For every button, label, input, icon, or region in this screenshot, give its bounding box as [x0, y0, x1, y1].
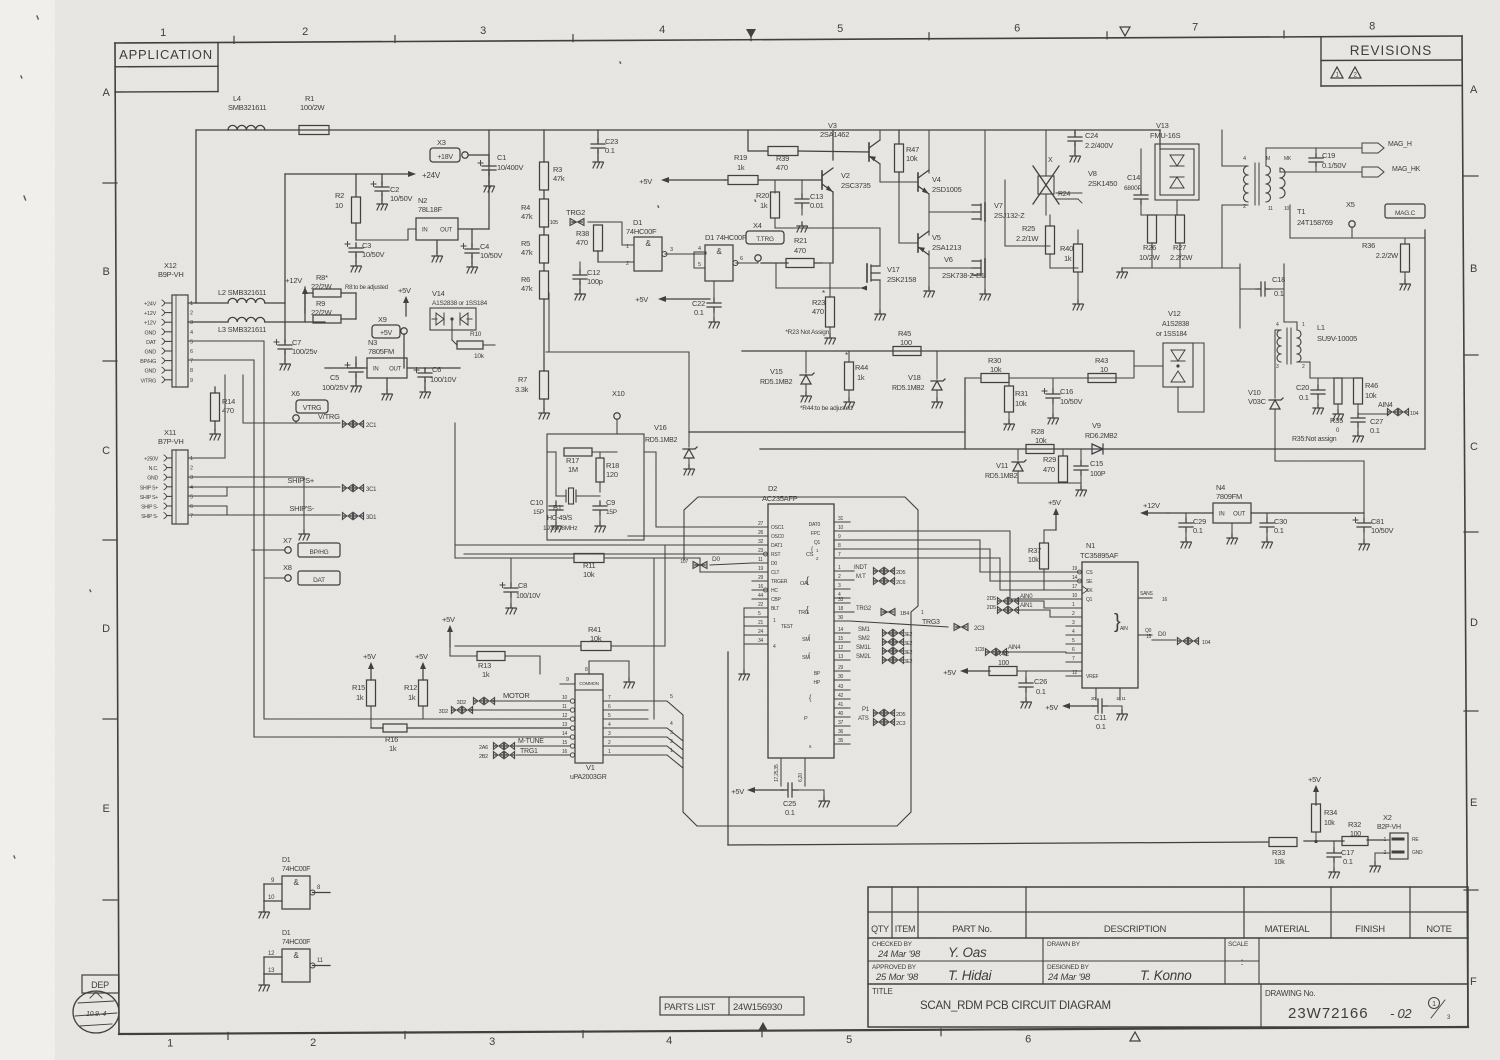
- svg-text:SM1L: SM1L: [856, 645, 872, 651]
- svg-text:R42: R42: [996, 649, 1009, 658]
- resistor R39: [748, 130, 869, 172]
- connector X12 B9P-VH: [140, 261, 193, 387]
- bottom centre fold marker: [758, 1022, 768, 1031]
- svg-text:A: A: [102, 87, 110, 99]
- svg-text:V/TRG: V/TRG: [140, 378, 156, 384]
- signal MAG_HK: [1280, 166, 1421, 177]
- svg-text:SCAN_RDM PCB CIRCUIT DIAGRAM: SCAN_RDM PCB CIRCUIT DIAGRAM: [920, 1000, 1111, 1012]
- svg-text:2C1: 2C1: [366, 423, 377, 429]
- svg-text:DESIGNED BY: DESIGNED BY: [1047, 964, 1090, 971]
- grid reference numbers top: [160, 20, 1375, 43]
- wire output node: [1005, 180, 1078, 268]
- svg-text:0.1: 0.1: [1370, 426, 1380, 435]
- svg-text:9: 9: [190, 378, 193, 384]
- svg-text:3D2: 3D2: [457, 700, 467, 706]
- handwritten approved by signature: [875, 968, 993, 983]
- svg-text:10/50V: 10/50V: [362, 250, 385, 259]
- zener V15: [760, 351, 814, 402]
- handwritten checked by signature: [877, 945, 987, 960]
- connector X8 DAT: [264, 563, 340, 585]
- svg-text:BP/HG: BP/HG: [140, 359, 156, 365]
- svg-text:47k: 47k: [553, 174, 565, 183]
- resistor R32: [1342, 820, 1368, 846]
- capacitor C29: [1179, 513, 1206, 548]
- transistor V5 2SA1213: [899, 212, 961, 297]
- capacitor C8: [500, 558, 541, 614]
- svg-text:C: C: [102, 445, 110, 457]
- wire box power upper: [546, 352, 689, 432]
- svg-text:100/2W: 100/2W: [300, 103, 326, 112]
- crystal B1: [543, 452, 600, 532]
- svg-text:D1: D1: [633, 218, 642, 227]
- resistor R34: [1308, 775, 1337, 843]
- svg-text:TRG3: TRG3: [922, 619, 940, 626]
- capacitor C26: [1019, 671, 1047, 708]
- svg-text:20: 20: [1091, 696, 1096, 701]
- svg-text:10k: 10k: [1365, 391, 1377, 400]
- svg-text:3E2: 3E2: [904, 632, 913, 638]
- signal V/TRG: [293, 412, 377, 429]
- svg-text:RD5.1MB2: RD5.1MB2: [760, 379, 793, 386]
- zener V11: [985, 449, 1026, 483]
- wire R45 rail: [742, 350, 1134, 352]
- wire L1 box: [1240, 264, 1284, 328]
- label R35 not assign: [1292, 436, 1337, 443]
- capacitor C11: [1045, 688, 1127, 731]
- svg-text:V12: V12: [1168, 309, 1181, 318]
- svg-text:2SJ132-Z: 2SJ132-Z: [994, 211, 1025, 220]
- svg-text:TRGER: TRGER: [771, 579, 788, 585]
- svg-text:2: 2: [626, 261, 629, 267]
- DEP department box: [82, 975, 119, 993]
- svg-text:GND: GND: [1412, 850, 1423, 856]
- svg-text:10k: 10k: [1015, 399, 1027, 408]
- svg-text:R9: R9: [316, 299, 325, 308]
- svg-text:R37: R37: [1028, 546, 1041, 555]
- regulator N3 7805FM: [325, 338, 460, 400]
- svg-text:R3: R3: [553, 165, 562, 174]
- resistor R5: [521, 227, 549, 263]
- svg-text:1k: 1k: [857, 373, 865, 382]
- svg-text:8: 8: [190, 368, 193, 374]
- capacitor C15: [1074, 449, 1106, 483]
- svg-text:104: 104: [1202, 640, 1211, 646]
- resistor R43: [1088, 356, 1116, 383]
- svg-text:16: 16: [758, 584, 764, 590]
- svg-text:C2: C2: [390, 185, 399, 194]
- svg-text:VREF: VREF: [1086, 674, 1099, 680]
- wire X2 route: [728, 652, 1383, 845]
- svg-text:MATERIAL: MATERIAL: [1265, 924, 1310, 935]
- svg-text:DAT: DAT: [146, 340, 157, 346]
- svg-text:+5V: +5V: [1045, 703, 1058, 712]
- svg-text:AIN4: AIN4: [1378, 402, 1393, 409]
- svg-text:MAG.C: MAG.C: [1395, 210, 1416, 217]
- svg-text:11: 11: [758, 557, 763, 563]
- svg-text:11: 11: [562, 704, 567, 710]
- svg-text:IN: IN: [1219, 512, 1225, 518]
- svg-text:R8*: R8*: [316, 273, 328, 282]
- svg-text:10k: 10k: [990, 365, 1002, 374]
- svg-text:TITLE: TITLE: [872, 987, 893, 996]
- svg-text:10: 10: [1100, 365, 1108, 374]
- svg-text:COMMON: COMMON: [579, 681, 599, 686]
- wire TRG3 run: [850, 621, 948, 627]
- svg-text:L4: L4: [233, 94, 241, 103]
- svg-text:V4: V4: [932, 175, 941, 184]
- connector X6 VTRG: [291, 389, 328, 413]
- svg-text:0.1: 0.1: [605, 146, 615, 155]
- capacitor C13: [795, 180, 824, 232]
- resistor R26: [1139, 215, 1161, 268]
- svg-text:10k: 10k: [1028, 557, 1039, 564]
- svg-text:104: 104: [1410, 411, 1419, 417]
- svg-text:1: 1: [190, 456, 193, 462]
- svg-text:+18V: +18V: [437, 154, 453, 161]
- svg-text:+5V: +5V: [442, 615, 455, 624]
- connector X11 B7P-VH: [140, 428, 193, 524]
- svg-text:SM2: SM2: [858, 636, 871, 642]
- svg-text:6: 6: [740, 256, 743, 262]
- capacitor C5: [322, 357, 363, 392]
- svg-text:OUT: OUT: [389, 367, 402, 373]
- svg-text:V9: V9: [1092, 421, 1101, 430]
- svg-text:C11: C11: [1094, 713, 1107, 722]
- svg-text:N1: N1: [1086, 541, 1095, 550]
- signal P1: [862, 707, 906, 718]
- resistor R9: [311, 293, 356, 323]
- svg-text:2.2/2W: 2.2/2W: [1170, 253, 1193, 262]
- resistor R7: [515, 299, 550, 419]
- svg-text:T. Hidai: T. Hidai: [948, 968, 993, 983]
- svg-text:VTRG: VTRG: [303, 405, 321, 412]
- wire box power vert: [741, 351, 743, 432]
- svg-text:GND: GND: [145, 330, 157, 336]
- svg-text:3D2: 3D2: [439, 709, 449, 715]
- svg-text:6: 6: [1014, 22, 1020, 34]
- svg-text:V11: V11: [996, 461, 1008, 470]
- svg-text:27: 27: [758, 521, 764, 527]
- resistor R42: [943, 649, 1082, 677]
- svg-text:0.1: 0.1: [1193, 526, 1203, 535]
- svg-text:DAT0: DAT0: [809, 522, 821, 528]
- power +12V arrow: [1140, 501, 1168, 516]
- svg-text:41: 41: [838, 702, 844, 708]
- svg-text:- 02: - 02: [1390, 1006, 1412, 1021]
- svg-text:SANS: SANS: [1140, 591, 1154, 597]
- svg-text:R43: R43: [1095, 356, 1108, 365]
- svg-text:11: 11: [1268, 206, 1273, 212]
- svg-text:L3 SMB321611: L3 SMB321611: [218, 325, 266, 334]
- svg-text:R8:to be adjusted: R8:to be adjusted: [345, 285, 388, 291]
- svg-text:24T158769: 24T158769: [1297, 218, 1333, 227]
- capacitor C19: [1309, 148, 1346, 172]
- svg-text:INDT: INDT: [854, 565, 868, 571]
- transistor V2 2SC3735: [822, 130, 871, 263]
- svg-text:3E2: 3E2: [904, 659, 913, 665]
- svg-text:C27: C27: [1370, 417, 1383, 426]
- capacitor C14: [1124, 149, 1148, 215]
- gate D1b 74HC00F: [694, 233, 758, 281]
- svg-text:74HC00F: 74HC00F: [282, 866, 310, 873]
- resistor R38: [576, 225, 603, 262]
- grid reference letters right: [1464, 84, 1478, 988]
- diode V9: [1085, 421, 1118, 454]
- svg-text:24: 24: [758, 629, 764, 635]
- svg-text:RE: RE: [1412, 837, 1419, 843]
- wire X12 VTRG run: [243, 375, 340, 423]
- svg-text:*R23 Not Assign: *R23 Not Assign: [785, 329, 829, 336]
- svg-text:B1: B1: [553, 503, 562, 512]
- svg-text:V18: V18: [908, 373, 921, 382]
- wire left drop from rail: [195, 130, 197, 303]
- capacitor C10: [530, 498, 563, 532]
- svg-text:15P: 15P: [533, 509, 544, 516]
- svg-text:2D5: 2D5: [987, 605, 997, 611]
- svg-text:10/50V: 10/50V: [480, 251, 503, 260]
- IC D2 bottom pins: [774, 758, 805, 786]
- svg-text:6800P: 6800P: [1124, 185, 1142, 192]
- svg-text:14: 14: [838, 627, 844, 633]
- svg-text:V17: V17: [887, 265, 900, 274]
- svg-text:V14: V14: [432, 289, 445, 298]
- svg-text:A1S2838: A1S2838: [1162, 321, 1189, 328]
- svg-text:}: }: [1114, 611, 1121, 633]
- connector X2 B2P-VH: [1370, 813, 1423, 872]
- svg-text:1: 1: [167, 1038, 173, 1050]
- svg-text:10: 10: [1284, 206, 1290, 212]
- svg-text:R13: R13: [478, 661, 491, 670]
- svg-text:CLT: CLT: [771, 570, 780, 576]
- svg-text:3E2: 3E2: [904, 641, 913, 647]
- svg-text:D: D: [102, 623, 110, 635]
- svg-text:X8: X8: [283, 563, 292, 572]
- svg-text:+5V: +5V: [1308, 775, 1321, 784]
- connector X10: [612, 389, 625, 434]
- svg-text:X12: X12: [164, 261, 177, 270]
- svg-text:29: 29: [838, 665, 844, 671]
- svg-text:3.3k: 3.3k: [515, 385, 529, 394]
- svg-text:*R44:to be adjusted: *R44:to be adjusted: [800, 405, 853, 412]
- svg-text:R16: R16: [385, 735, 398, 744]
- wire left verticals: [454, 423, 456, 558]
- resistor R33: [1269, 838, 1297, 867]
- svg-text:R34: R34: [1324, 808, 1337, 817]
- resistor R15: [352, 652, 376, 728]
- svg-text:DESCRIPTION: DESCRIPTION: [1104, 924, 1167, 935]
- resistor R29: [1043, 449, 1068, 483]
- resistor R40: [1060, 230, 1084, 310]
- svg-text:C6: C6: [432, 365, 441, 374]
- signal SAAS out: [1152, 597, 1168, 603]
- inductor L4: [228, 94, 267, 130]
- svg-text:MOTOR: MOTOR: [503, 691, 530, 700]
- svg-text:C7: C7: [292, 338, 301, 347]
- svg-text:10: 10: [838, 525, 844, 531]
- svg-text:FINISH: FINISH: [1355, 924, 1385, 935]
- svg-text:+5V: +5V: [639, 177, 652, 186]
- svg-text:R44: R44: [855, 363, 868, 372]
- signal 3D2 pin11: [439, 707, 560, 716]
- svg-text:10/2W: 10/2W: [1139, 253, 1161, 262]
- svg-text:R35:Not assign: R35:Not assign: [1292, 436, 1337, 443]
- svg-text:1k: 1k: [389, 744, 397, 753]
- svg-text:40: 40: [838, 711, 844, 717]
- svg-text:+12V: +12V: [144, 321, 157, 327]
- svg-text:C8: C8: [518, 581, 527, 590]
- diode pair V14: [430, 289, 488, 330]
- svg-text:F: F: [1470, 976, 1477, 988]
- capacitor C23: [591, 130, 618, 168]
- svg-text:2C3: 2C3: [974, 626, 985, 632]
- svg-text:31: 31: [838, 516, 844, 522]
- resistor R8: [305, 273, 388, 322]
- diode pair V12: [1134, 309, 1204, 412]
- signal M.T: [850, 574, 906, 586]
- svg-text:T. Konno: T. Konno: [1140, 968, 1192, 983]
- svg-text:15: 15: [838, 636, 844, 642]
- wire X11 pin jogs: [188, 487, 227, 515]
- svg-text:5: 5: [190, 339, 193, 345]
- svg-text:6: 6: [190, 504, 193, 510]
- svg-text:6: 6: [190, 349, 193, 355]
- svg-text:OUT: OUT: [440, 228, 453, 234]
- svg-text:C24: C24: [1085, 131, 1098, 140]
- svg-text:M.T: M.T: [856, 574, 866, 580]
- spare gate D1 74HC00F upper: [259, 857, 330, 918]
- svg-text:+5V: +5V: [731, 787, 744, 796]
- svg-text:{: {: [811, 547, 813, 553]
- svg-text:TRG1: TRG1: [520, 748, 538, 755]
- svg-text:DEP: DEP: [91, 980, 109, 990]
- svg-text:Q1: Q1: [1086, 597, 1093, 603]
- svg-text:C: C: [1470, 441, 1478, 453]
- signal AIN0: [987, 594, 1066, 608]
- svg-text:470: 470: [576, 238, 588, 247]
- wire main rail 449: [760, 230, 1425, 449]
- connector X5: [1346, 200, 1355, 238]
- svg-text:10k: 10k: [590, 634, 602, 643]
- svg-text:R47: R47: [906, 145, 919, 154]
- svg-text:470: 470: [1043, 465, 1055, 474]
- tag MAG.C: [1385, 204, 1425, 218]
- svg-text:4: 4: [190, 330, 193, 336]
- svg-text:SM2L: SM2L: [856, 654, 872, 660]
- svg-text:T.TRG: T.TRG: [756, 236, 774, 243]
- svg-text:V2: V2: [841, 171, 850, 180]
- svg-text:1: 1: [190, 301, 193, 307]
- svg-text:C12: C12: [587, 268, 600, 277]
- svg-text:+5V: +5V: [635, 295, 648, 304]
- svg-text:*: *: [845, 351, 848, 360]
- svg-text:1k: 1k: [1064, 254, 1072, 263]
- resistor R41: [455, 545, 665, 651]
- wire R16 run: [371, 727, 570, 729]
- inductor L2: [188, 288, 285, 303]
- svg-text:X2: X2: [1383, 813, 1392, 822]
- svg-text:10.9.-4: 10.9.-4: [86, 1011, 106, 1018]
- svg-text:12: 12: [838, 645, 844, 651]
- capacitor C24: [1068, 130, 1113, 162]
- svg-text:R30: R30: [988, 356, 1001, 365]
- svg-text:470: 470: [776, 163, 788, 172]
- wire V10 to N4: [1275, 449, 1364, 513]
- svg-text:R15: R15: [352, 683, 365, 692]
- svg-text:7805FM: 7805FM: [368, 347, 394, 356]
- svg-text:2D5: 2D5: [987, 596, 997, 602]
- capacitor C20: [1296, 378, 1325, 414]
- svg-text:C5: C5: [330, 373, 339, 382]
- svg-text:R14: R14: [222, 397, 235, 406]
- svg-text:ITEM: ITEM: [895, 924, 916, 934]
- svg-text:3D1: 3D1: [366, 515, 377, 521]
- wire D2 outline box: [684, 497, 918, 826]
- svg-text:C13: C13: [810, 192, 823, 201]
- svg-text:R31: R31: [1015, 389, 1028, 398]
- svg-text:D2: D2: [768, 484, 777, 493]
- signal TRG3: [922, 619, 985, 632]
- svg-text:RD5.1MB2: RD5.1MB2: [645, 437, 678, 444]
- resistor R14: [210, 387, 235, 440]
- svg-text:X3: X3: [437, 138, 446, 147]
- signal SM2: [858, 636, 913, 647]
- top centre fold marker: [746, 29, 756, 38]
- svg-text:100/10V: 100/10V: [516, 593, 541, 600]
- svg-text:1k: 1k: [482, 670, 490, 679]
- svg-text:R41: R41: [588, 625, 601, 634]
- svg-text:35: 35: [838, 738, 844, 744]
- svg-text:10k: 10k: [583, 570, 595, 579]
- svg-text:D1: D1: [282, 930, 291, 937]
- svg-text:N4: N4: [1216, 483, 1225, 492]
- svg-text:2SD1005: 2SD1005: [932, 185, 962, 194]
- svg-text:17: 17: [1072, 584, 1078, 590]
- wire T1 primary: [1222, 130, 1248, 268]
- svg-text:BP: BP: [814, 671, 821, 677]
- svg-text:22/2W: 22/2W: [311, 308, 333, 317]
- svg-text:C17: C17: [1341, 848, 1354, 857]
- svg-text:R24: R24: [1058, 191, 1070, 198]
- wire digital box outer: [254, 430, 570, 737]
- svg-text:2B2: 2B2: [479, 754, 488, 760]
- svg-text:R36: R36: [1362, 241, 1375, 250]
- APPLICATION title box: [115, 43, 218, 93]
- resistor R45: [893, 329, 921, 356]
- svg-text:CBP: CBP: [771, 597, 781, 603]
- svg-text:GND: GND: [145, 369, 157, 375]
- svg-text:33: 33: [838, 597, 844, 603]
- svg-text:2: 2: [310, 1037, 316, 1049]
- svg-text:74HC00F: 74HC00F: [626, 227, 657, 236]
- svg-text:B9P-VH: B9P-VH: [158, 270, 184, 279]
- signal ATS: [858, 716, 906, 727]
- resistor R27: [1170, 215, 1193, 268]
- svg-text:470: 470: [812, 307, 824, 316]
- transistor V3 2SA1462: [820, 121, 899, 182]
- capacitor C3: [345, 241, 385, 272]
- connector X3 +18V: [430, 130, 489, 162]
- transformer T1: [1243, 156, 1333, 227]
- svg-text:1C8: 1C8: [975, 647, 985, 653]
- svg-text:D0: D0: [771, 561, 777, 567]
- svg-text:+24V: +24V: [422, 171, 441, 180]
- svg-text:FMU-16S: FMU-16S: [1150, 131, 1181, 140]
- svg-text:L2 SMB321611: L2 SMB321611: [218, 288, 266, 297]
- svg-text:1M: 1M: [568, 465, 578, 474]
- svg-text:R32: R32: [1348, 820, 1361, 829]
- resistor R1: [299, 94, 329, 135]
- svg-text:10/50V: 10/50V: [1371, 526, 1394, 535]
